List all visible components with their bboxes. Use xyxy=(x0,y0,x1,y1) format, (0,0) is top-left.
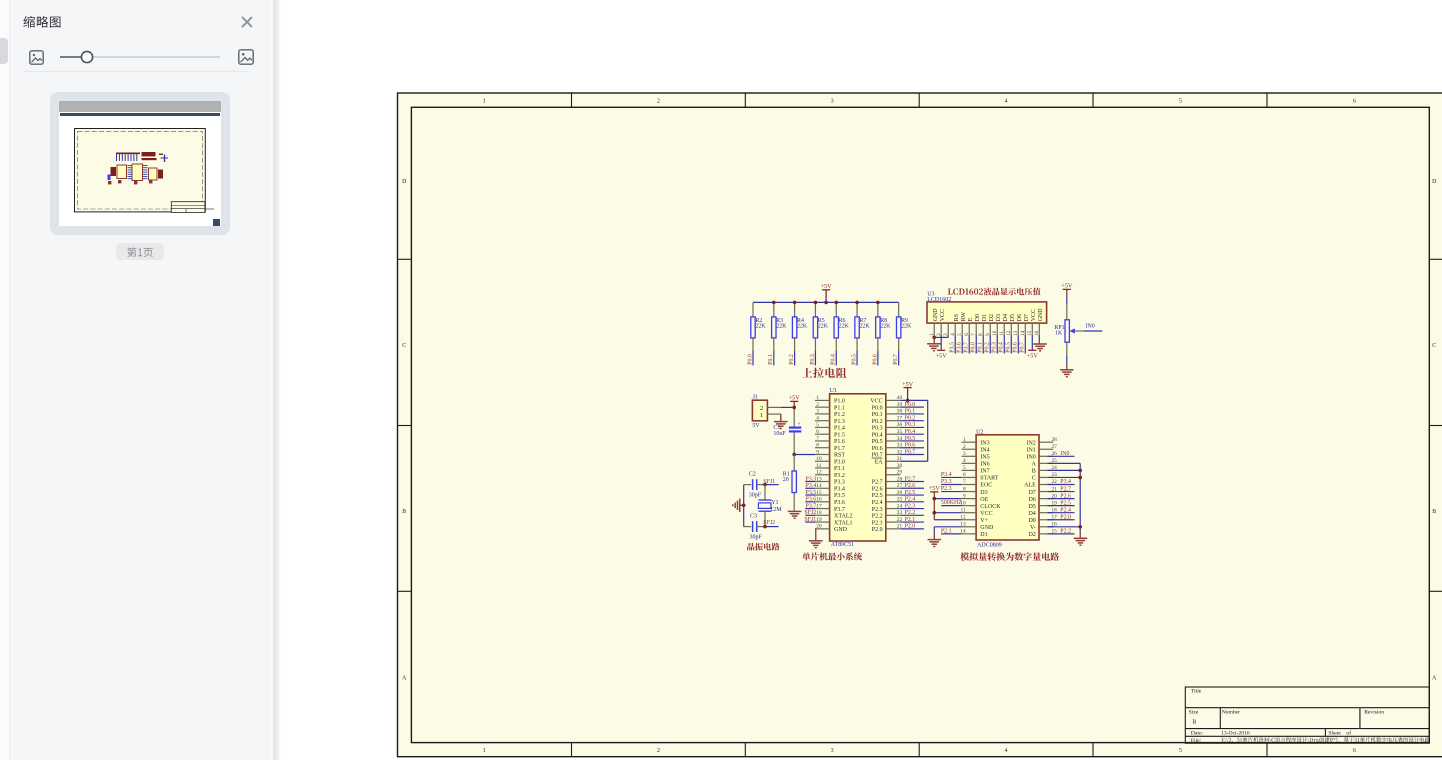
svg-text:Y1: Y1 xyxy=(771,500,778,506)
svg-text:C2: C2 xyxy=(749,472,756,478)
svg-text:+5V: +5V xyxy=(1027,353,1039,360)
wire net P0.2 xyxy=(900,415,924,421)
resistor R3 22K xyxy=(772,302,787,351)
wire net P2.7 xyxy=(900,476,924,482)
svg-text:2: 2 xyxy=(657,98,660,104)
svg-text:P0.5: P0.5 xyxy=(905,436,916,442)
junction xyxy=(763,483,767,487)
small image icon (zoom out) xyxy=(29,50,44,65)
U3 pin numbers xyxy=(930,330,1040,336)
svg-text:D: D xyxy=(1432,179,1436,185)
junction xyxy=(1078,476,1082,480)
svg-text:P0.2: P0.2 xyxy=(789,354,795,365)
svg-text:17: 17 xyxy=(816,503,822,509)
wire net P2.0 (U2 right) xyxy=(1048,514,1075,520)
wire net P2.4 (U2 right) xyxy=(1048,507,1075,513)
caption 模拟量转换为数字量电路 xyxy=(960,552,1059,561)
svg-text:P0.6: P0.6 xyxy=(905,443,916,449)
svg-text:D1: D1 xyxy=(982,314,988,321)
svg-text:5V: 5V xyxy=(752,423,760,429)
svg-text:P2.0: P2.0 xyxy=(1060,514,1071,520)
J1 pins xyxy=(767,407,781,414)
svg-text:3: 3 xyxy=(831,748,834,754)
U2 pin names xyxy=(980,440,1036,538)
svg-text:B: B xyxy=(1032,469,1036,475)
svg-text:14: 14 xyxy=(816,483,822,489)
wire net P0.4 xyxy=(900,429,924,435)
svg-text:VCC: VCC xyxy=(1031,309,1037,321)
svg-text:1: 1 xyxy=(483,748,486,754)
svg-text:P1.5: P1.5 xyxy=(834,432,845,438)
svg-text:8: 8 xyxy=(816,443,819,449)
svg-text:20: 20 xyxy=(783,477,789,483)
svg-text:P3.7: P3.7 xyxy=(964,342,970,353)
svg-text:D1: D1 xyxy=(980,532,987,538)
svg-text:D4: D4 xyxy=(1028,511,1035,517)
svg-text:GND: GND xyxy=(933,308,939,322)
capacitor C3 30pF xyxy=(750,514,763,541)
svg-text:6: 6 xyxy=(1353,748,1356,754)
svg-text:V+: V+ xyxy=(980,518,988,524)
svg-text:A: A xyxy=(1031,462,1036,468)
U3 pins 1-16 xyxy=(934,323,1039,335)
svg-text:P0.6: P0.6 xyxy=(872,354,878,365)
svg-text:P3.6: P3.6 xyxy=(957,342,963,353)
wire net SFJ2 xyxy=(757,520,779,526)
svg-text:ADC0809: ADC0809 xyxy=(977,543,1002,549)
svg-text:IN5: IN5 xyxy=(980,455,989,461)
svg-text:IN6: IN6 xyxy=(980,462,989,468)
svg-text:C3: C3 xyxy=(750,514,757,520)
svg-text:P2.7: P2.7 xyxy=(1060,486,1071,492)
svg-text:XTAL2: XTAL2 xyxy=(834,514,853,520)
title block text xyxy=(1189,689,1430,744)
svg-text:+: + xyxy=(797,421,801,428)
svg-text:D3: D3 xyxy=(980,490,987,496)
svg-text:22K: 22K xyxy=(797,324,808,330)
wire net P2.6 (U2 right) xyxy=(1048,493,1075,499)
junction xyxy=(876,301,880,305)
svg-text:P1.4: P1.4 xyxy=(834,426,845,432)
svg-text:D2: D2 xyxy=(1028,532,1035,538)
caption 单片机最小系统 xyxy=(802,552,862,560)
svg-text:SFJ2: SFJ2 xyxy=(804,510,816,516)
svg-text:22K: 22K xyxy=(818,324,829,330)
wire net P3.6 xyxy=(957,335,963,354)
ground xyxy=(788,511,802,518)
svg-text:IN1: IN1 xyxy=(1026,447,1035,453)
resistor R5 22K xyxy=(813,302,828,351)
svg-text:P0.2: P0.2 xyxy=(985,342,991,353)
wire net 500KHZ xyxy=(941,500,962,506)
frame row dividers xyxy=(398,258,412,260)
svg-text:1: 1 xyxy=(760,412,763,419)
ground xyxy=(774,422,788,429)
caption LCD1602液晶显示电压值 xyxy=(948,288,1041,296)
RP1 wiper arrow xyxy=(1070,328,1075,333)
wire +5V to OE/VCC/V+ xyxy=(934,492,961,520)
svg-text:4: 4 xyxy=(1005,98,1008,104)
svg-text:6: 6 xyxy=(1353,98,1356,104)
svg-text:P3.7: P3.7 xyxy=(806,503,817,509)
ground xyxy=(1060,370,1074,377)
svg-text:P0.4: P0.4 xyxy=(831,354,837,365)
svg-text:+5V: +5V xyxy=(821,283,833,290)
svg-text:30pF: 30pF xyxy=(749,493,762,499)
svg-text:19: 19 xyxy=(816,517,822,523)
wire net P0.4 xyxy=(999,335,1005,354)
svg-text:V-: V- xyxy=(1030,525,1036,531)
svg-text:22K: 22K xyxy=(839,324,850,330)
svg-text:IN2: IN2 xyxy=(1026,440,1035,446)
svg-text:P2.4: P2.4 xyxy=(905,497,916,503)
wire C1 to RST node xyxy=(793,433,795,455)
svg-text:IN0: IN0 xyxy=(1060,451,1069,457)
svg-text:P2.1: P2.1 xyxy=(872,520,883,526)
svg-text:P3.4: P3.4 xyxy=(806,483,817,489)
svg-text:SFJ1: SFJ1 xyxy=(804,517,816,523)
wire U1 GND to ground xyxy=(814,529,817,541)
junction xyxy=(932,336,936,340)
svg-text:VCC: VCC xyxy=(940,309,946,321)
svg-text:OE: OE xyxy=(980,497,988,503)
wire pin15 VCC xyxy=(1031,335,1033,350)
svg-text:P0.7: P0.7 xyxy=(905,449,916,455)
svg-text:RW: RW xyxy=(961,312,967,322)
svg-text:ALE: ALE xyxy=(1024,483,1036,489)
svg-text:15: 15 xyxy=(816,490,822,496)
svg-text:P0.0: P0.0 xyxy=(905,402,916,408)
svg-text:VCC: VCC xyxy=(980,511,992,517)
svg-text:12: 12 xyxy=(816,470,822,476)
svg-text:P1.3: P1.3 xyxy=(834,419,845,425)
junction xyxy=(792,453,796,457)
svg-text:5: 5 xyxy=(963,465,966,471)
junction xyxy=(772,301,776,305)
svg-text:28: 28 xyxy=(1052,437,1058,443)
svg-text:P3.3: P3.3 xyxy=(834,480,845,486)
svg-text:D7: D7 xyxy=(1024,314,1030,321)
wire net P2.4 xyxy=(900,497,924,503)
wire net P3.4 (U2 right) xyxy=(1048,479,1075,485)
schematic sheet background xyxy=(397,93,1442,758)
resistor RP1 1K potentiometer xyxy=(1054,320,1069,342)
capacitor C2 30pF xyxy=(749,472,762,499)
wire SFJ1 to Y1 xyxy=(764,485,766,500)
title block xyxy=(1185,687,1429,743)
svg-text:Sheet of: Sheet of xyxy=(1328,730,1351,737)
junction xyxy=(933,497,937,501)
wire net P2.7 (U2 right) xyxy=(1048,486,1075,492)
svg-text:1: 1 xyxy=(483,98,486,104)
svg-text:Title: Title xyxy=(1191,689,1202,695)
svg-text:P3.3: P3.3 xyxy=(941,479,952,485)
svg-text:D2: D2 xyxy=(989,314,995,321)
svg-text:30: 30 xyxy=(897,463,903,469)
wire net P2.6 xyxy=(900,483,924,489)
svg-text:1: 1 xyxy=(963,437,966,443)
svg-text:7: 7 xyxy=(963,479,966,485)
U2 right pins xyxy=(1039,442,1053,534)
wire net SFJ2 xyxy=(804,510,816,516)
svg-text:+5V: +5V xyxy=(789,395,801,402)
svg-text:P3.5: P3.5 xyxy=(834,493,845,499)
power +5V xyxy=(929,485,941,492)
svg-text:Number: Number xyxy=(1222,710,1240,716)
svg-text:+5V: +5V xyxy=(902,381,914,388)
svg-text:5: 5 xyxy=(1179,98,1182,104)
wire net P3.7 xyxy=(805,503,816,509)
svg-text:22K: 22K xyxy=(880,324,891,330)
svg-text:P0.1: P0.1 xyxy=(905,409,916,415)
svg-text:U1: U1 xyxy=(830,388,837,394)
svg-text:P0.3: P0.3 xyxy=(810,354,816,365)
svg-text:P3.5: P3.5 xyxy=(806,490,817,496)
wire net IN0 (U2 right) xyxy=(1048,451,1075,457)
svg-text:Revision: Revision xyxy=(1364,710,1384,716)
wire ground stub xyxy=(740,504,744,506)
junction xyxy=(933,511,937,515)
svg-text:P0.0: P0.0 xyxy=(747,354,753,365)
power +5V xyxy=(902,381,914,388)
svg-text:P0.4: P0.4 xyxy=(872,432,883,438)
U2 left pins xyxy=(962,442,977,534)
svg-text:P3.4: P3.4 xyxy=(834,486,845,492)
svg-text:6: 6 xyxy=(816,429,819,435)
power +5V xyxy=(821,283,833,290)
wire net P2.3 xyxy=(900,503,924,509)
svg-text:P2.1: P2.1 xyxy=(941,528,952,534)
svg-text:EA: EA xyxy=(875,459,884,465)
svg-text:Date:: Date: xyxy=(1191,731,1204,737)
svg-text:4: 4 xyxy=(963,458,966,464)
svg-text:P2.0: P2.0 xyxy=(872,527,883,533)
svg-text:P2.5: P2.5 xyxy=(905,490,916,496)
svg-text:P2.3: P2.3 xyxy=(941,486,952,492)
wire net P3.4 xyxy=(941,472,962,478)
wire net P0.7 xyxy=(893,351,899,365)
svg-text:10uF: 10uF xyxy=(773,431,786,437)
wire J1 pin2 to +5V node xyxy=(781,406,794,408)
svg-text:9: 9 xyxy=(963,493,966,499)
op-amp U1 AT89C51 microcontroller xyxy=(830,388,886,548)
svg-text:P2.3: P2.3 xyxy=(905,503,916,509)
svg-text:P3.5: P3.5 xyxy=(950,342,956,353)
svg-text:16: 16 xyxy=(816,497,822,503)
wire net P0.1 xyxy=(900,409,924,415)
wire net P0.5 xyxy=(900,436,924,442)
svg-text:D0: D0 xyxy=(1028,518,1035,524)
wire Y1 to SFJ2 xyxy=(764,511,766,526)
svg-text:D4: D4 xyxy=(1003,314,1009,321)
ground xyxy=(1033,344,1047,351)
svg-text:P1.1: P1.1 xyxy=(834,405,845,411)
U2 pin numbers xyxy=(960,437,1057,535)
svg-text:18: 18 xyxy=(816,510,822,516)
svg-text:30pF: 30pF xyxy=(750,534,763,540)
svg-text:IN7: IN7 xyxy=(980,469,989,475)
resistor R9 22K xyxy=(896,302,911,351)
large image icon (zoom in) xyxy=(238,49,254,65)
svg-text:GND: GND xyxy=(834,527,848,533)
svg-text:500KHZ: 500KHZ xyxy=(941,500,962,506)
wire net IN0 to RP1 wiper xyxy=(1075,323,1102,331)
wire net P0.7 xyxy=(900,449,924,455)
capacitor C1 10uF xyxy=(773,421,801,437)
svg-text:P2.0: P2.0 xyxy=(905,524,916,530)
wire VCC/EA to +5V xyxy=(900,388,927,462)
svg-text:P1.2: P1.2 xyxy=(834,412,845,418)
svg-text:P3.1: P3.1 xyxy=(834,466,845,472)
wire +5V to RP1 xyxy=(1066,289,1068,319)
svg-text:P0.7: P0.7 xyxy=(893,354,899,365)
svg-text:P0.7: P0.7 xyxy=(1020,342,1026,353)
resistor R6 22K xyxy=(834,302,849,351)
svg-text:+5V: +5V xyxy=(929,485,941,492)
svg-text:29: 29 xyxy=(897,470,903,476)
svg-text:P2.2: P2.2 xyxy=(872,514,883,520)
svg-text:P0.6: P0.6 xyxy=(872,446,883,452)
svg-text:P0.1: P0.1 xyxy=(768,354,774,365)
svg-text:22K: 22K xyxy=(859,324,870,330)
junction xyxy=(1078,469,1082,473)
resistor R1 20 xyxy=(783,454,797,511)
svg-text:P0.5: P0.5 xyxy=(1006,342,1012,353)
wire net P0.0 xyxy=(900,402,924,408)
svg-text:13-Oct-2016: 13-Oct-2016 xyxy=(1221,731,1250,737)
op-amp U2 ADC0809 xyxy=(976,429,1039,548)
svg-text:B: B xyxy=(402,509,406,515)
U1 right pins xyxy=(886,400,901,528)
svg-text:P0.4: P0.4 xyxy=(905,429,916,435)
svg-text:4: 4 xyxy=(1005,748,1008,754)
svg-text:RS: RS xyxy=(954,314,960,321)
U1 left pins xyxy=(815,400,830,528)
wire net P3.5 xyxy=(805,490,816,496)
wire net P3.4 xyxy=(805,483,816,489)
wire net P2.3 xyxy=(941,486,962,492)
svg-text:IN0: IN0 xyxy=(1026,455,1035,461)
wire net P0.6 xyxy=(1013,335,1019,354)
svg-text:C: C xyxy=(402,343,406,349)
wire net SFJ1 xyxy=(757,479,779,485)
svg-text:GND: GND xyxy=(1038,308,1044,322)
svg-text:9: 9 xyxy=(816,449,819,455)
wire +5V stub to bus xyxy=(825,290,827,296)
svg-text:P2.6: P2.6 xyxy=(905,483,916,489)
wire net P0.5 xyxy=(1006,335,1012,354)
frame zone labels xyxy=(402,98,1437,754)
svg-text:5: 5 xyxy=(1179,748,1182,754)
junction xyxy=(855,301,859,305)
wire net P3.7 xyxy=(964,335,970,354)
svg-text:P3.0: P3.0 xyxy=(834,459,845,465)
svg-text:P2.2: P2.2 xyxy=(905,510,916,516)
junction xyxy=(814,301,818,305)
resistor R4 22K xyxy=(792,302,807,351)
wire net P3.5 xyxy=(950,335,956,354)
svg-text:GND: GND xyxy=(980,525,994,531)
wire pin16 stub xyxy=(1048,526,1054,528)
svg-text:E: E xyxy=(968,317,974,321)
junction xyxy=(763,525,767,529)
svg-text:IN0: IN0 xyxy=(1086,323,1095,329)
svg-text:CLOCK: CLOCK xyxy=(980,504,1001,510)
junction xyxy=(742,504,746,508)
wire pin16 GND xyxy=(1038,335,1040,338)
svg-text:8: 8 xyxy=(963,486,966,492)
svg-text:P3.3: P3.3 xyxy=(806,476,817,482)
svg-text:22K: 22K xyxy=(755,324,766,330)
crystal Y1 12M xyxy=(758,500,782,513)
U1 pin numbers xyxy=(816,395,902,529)
svg-text:D3: D3 xyxy=(996,314,1002,321)
svg-text:2: 2 xyxy=(963,444,966,450)
svg-text:2: 2 xyxy=(816,402,819,408)
resistor R2 22K xyxy=(751,302,766,351)
svg-text:P3.4: P3.4 xyxy=(941,472,952,478)
svg-text:P3.4: P3.4 xyxy=(1060,479,1071,485)
svg-text:+5V: +5V xyxy=(1061,283,1073,290)
ground xyxy=(927,344,941,351)
svg-text:P0.0: P0.0 xyxy=(971,342,977,353)
thumbnail side panel xyxy=(10,0,271,760)
svg-text:P1.6: P1.6 xyxy=(834,439,845,445)
wire net P0.0 xyxy=(747,351,753,365)
svg-text:20: 20 xyxy=(816,524,822,530)
svg-text:P2.5: P2.5 xyxy=(1060,500,1071,506)
svg-text:2: 2 xyxy=(657,748,660,754)
svg-text:D6: D6 xyxy=(1028,497,1035,503)
svg-text:13: 13 xyxy=(816,476,822,482)
wire +5V to C1 xyxy=(793,401,795,426)
svg-text:11: 11 xyxy=(816,463,821,469)
svg-text:File:: File: xyxy=(1191,738,1202,744)
svg-text:EOC: EOC xyxy=(980,483,992,489)
svg-text:P2.4: P2.4 xyxy=(1060,507,1071,513)
svg-text:IN3: IN3 xyxy=(980,440,989,446)
svg-text:P1.0: P1.0 xyxy=(834,399,845,405)
svg-text:10: 10 xyxy=(816,456,822,462)
svg-text:P0.1: P0.1 xyxy=(872,412,883,418)
wire pin1/pin3 to ground xyxy=(934,335,948,338)
ground xyxy=(809,541,823,548)
svg-text:P2.6: P2.6 xyxy=(872,486,883,492)
svg-text:6: 6 xyxy=(963,472,966,478)
svg-text:P2.2: P2.2 xyxy=(1060,529,1071,535)
wire net P0.4 xyxy=(831,351,837,365)
wire net SFJ1 xyxy=(804,517,816,523)
wire net P0.3 xyxy=(992,335,998,354)
svg-text:P0.4: P0.4 xyxy=(999,342,1005,353)
svg-text:D: D xyxy=(402,179,406,185)
frame column dividers xyxy=(398,93,1442,757)
svg-text:P0.1: P0.1 xyxy=(978,342,984,353)
svg-text:AT89C51: AT89C51 xyxy=(831,542,854,548)
svg-text:P2.3: P2.3 xyxy=(872,507,883,513)
U1 pin names xyxy=(834,399,883,533)
wire RP1 to ground xyxy=(1066,342,1068,370)
svg-text:B: B xyxy=(1192,720,1196,726)
op-amp U3 LCD1602 display module xyxy=(927,291,1047,323)
svg-text:P0.2: P0.2 xyxy=(905,415,916,421)
wire net P0.0 xyxy=(971,335,977,354)
ground xyxy=(1074,538,1088,545)
wire net P0.2 xyxy=(985,335,991,354)
svg-text:IN4: IN4 xyxy=(980,447,989,453)
svg-text:P1.7: P1.7 xyxy=(834,446,845,452)
svg-text:P3.6: P3.6 xyxy=(834,500,845,506)
